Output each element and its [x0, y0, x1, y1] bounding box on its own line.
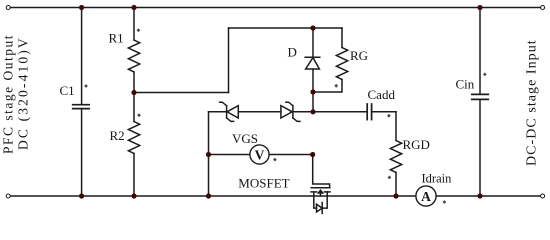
wire R2 bottom lead [133, 154, 135, 197]
pin-1 marks [84, 28, 487, 204]
wire C1 bottom lead [81, 109, 83, 196]
capacitor Cin [472, 94, 489, 99]
svg-text:RGD: RGD [403, 137, 430, 152]
svg-text:R1: R1 [109, 31, 124, 46]
node Cin bottom [477, 193, 482, 198]
terminal top-right [541, 6, 545, 10]
wire C1 top lead [81, 8, 83, 105]
node zener-Cadd [310, 109, 315, 114]
wire RG bottom lead [313, 80, 342, 93]
wire VGS row left [209, 154, 250, 156]
wire RGD top lead [395, 112, 397, 141]
terminal bottom-right [541, 194, 545, 198]
svg-text:Cadd: Cadd [368, 87, 396, 102]
wire Cadd left lead [313, 111, 367, 113]
node C1 bottom [79, 193, 84, 198]
diode D [305, 56, 320, 58]
wire gate-drive top horizontal [229, 27, 343, 29]
node R1 top [131, 5, 136, 10]
wire R1 top lead [133, 8, 135, 41]
capacitor C1 [73, 105, 90, 109]
wire between zeners [238, 111, 281, 113]
resistor R1 [128, 40, 139, 72]
wire RGD bottom lead [395, 173, 397, 197]
zener diode Z1 [226, 106, 228, 118]
voltmeter VGS [250, 145, 269, 164]
svg-text:D: D [288, 45, 297, 60]
wire bottom rail right of ammeter [436, 195, 540, 197]
svg-text:Idrain: Idrain [422, 171, 453, 185]
node VGS leg bottom [206, 193, 211, 198]
svg-text:DC-DC stage Input: DC-DC stage Input [525, 39, 540, 166]
resistor R2 [128, 122, 139, 154]
transistor MOSFET [311, 188, 330, 192]
svg-text:V: V [255, 147, 265, 162]
resistor RG [336, 48, 347, 80]
svg-text:A: A [421, 189, 431, 204]
node RGD bottom [393, 193, 398, 198]
capacitor Cadd [367, 104, 371, 120]
wire VGS row right [269, 154, 313, 156]
wire bottom rail left of ammeter [11, 195, 416, 197]
svg-text:DC (320-410)V: DC (320-410)V [16, 36, 31, 150]
wire Cin bottom lead [479, 100, 481, 196]
zener diode Z2 [281, 106, 292, 118]
wire D bottom lead [312, 69, 314, 92]
resistor RGD [390, 141, 401, 173]
svg-text:VGS: VGS [232, 131, 258, 146]
node Cin top [477, 5, 482, 10]
wire R1 to node [133, 72, 135, 122]
wire VGS left leg [208, 112, 210, 196]
node gate [310, 152, 315, 157]
node VGS left [206, 152, 211, 157]
svg-text:C1: C1 [60, 83, 75, 98]
wire Cin top lead [479, 8, 481, 95]
wire zener row left leg top [209, 111, 227, 113]
node D top [310, 25, 315, 30]
node R2 bottom [131, 193, 136, 198]
svg-text:PFC stage Output: PFC stage Output [1, 34, 16, 154]
wire RG top lead [341, 28, 343, 48]
ammeter Idrain [416, 186, 436, 206]
wire zener to center node [293, 111, 313, 113]
wire MOSFET gate lead [313, 155, 330, 188]
wire Cadd right lead [372, 111, 396, 113]
wire node D-RG to zener row [312, 92, 314, 112]
node C1 top [79, 5, 84, 10]
wire gate-drive vertical riser [228, 28, 230, 93]
terminal top-left [6, 6, 10, 10]
node D-RG [310, 89, 315, 94]
wire gate-drive horizontal from R1R2 node [134, 92, 229, 94]
body diode of MOSFET [314, 196, 317, 208]
node R1-R2 [131, 90, 136, 95]
svg-text:Cin: Cin [456, 77, 475, 92]
svg-text:MOSFET: MOSFET [238, 176, 289, 191]
wire D top lead [312, 28, 314, 57]
svg-text:RG: RG [350, 48, 368, 63]
wire top rail [11, 7, 541, 9]
terminal bottom-left [6, 194, 10, 198]
svg-text:R2: R2 [110, 128, 125, 143]
